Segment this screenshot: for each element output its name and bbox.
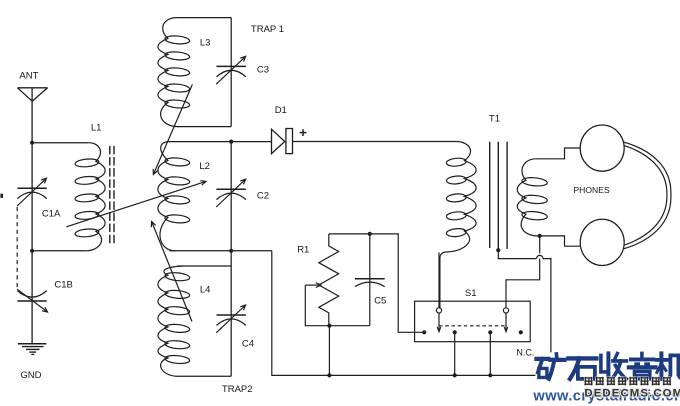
svg-text:D1: D1 xyxy=(275,105,287,116)
svg-text:L4: L4 xyxy=(200,285,211,296)
svg-text:L1: L1 xyxy=(91,122,102,133)
svg-text:N.C.: N.C. xyxy=(516,348,534,358)
svg-text:C3: C3 xyxy=(257,65,269,76)
svg-text:L2: L2 xyxy=(199,161,210,172)
svg-text:L3: L3 xyxy=(200,38,211,49)
svg-text:T1: T1 xyxy=(489,113,500,124)
svg-text:PHONES: PHONES xyxy=(573,185,610,195)
svg-text:R1: R1 xyxy=(297,244,309,255)
svg-text:GND: GND xyxy=(20,370,41,381)
svg-text:TRAP 1: TRAP 1 xyxy=(251,24,284,35)
svg-text:C2: C2 xyxy=(257,191,269,202)
svg-text:C5: C5 xyxy=(374,296,386,307)
svg-text:C4: C4 xyxy=(242,338,254,349)
svg-text:C1B: C1B xyxy=(54,279,72,290)
svg-text:C1A: C1A xyxy=(42,209,61,220)
svg-text:DEDECMS.COM: DEDECMS.COM xyxy=(584,387,680,399)
svg-text:S1: S1 xyxy=(465,288,477,299)
svg-text:ANT: ANT xyxy=(19,71,38,82)
svg-text:TRAP2: TRAP2 xyxy=(222,384,253,395)
